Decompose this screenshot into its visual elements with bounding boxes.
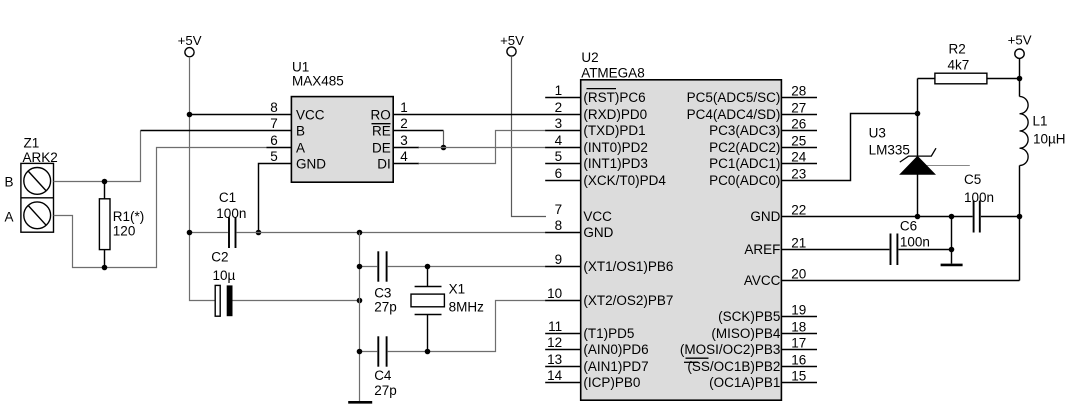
svg-text:(INT1)PD3: (INT1)PD3 [583, 156, 648, 171]
svg-text:7: 7 [270, 116, 278, 131]
svg-text:17: 17 [791, 336, 806, 351]
wire net GND of U1 (pin 5 to GND row) [259, 164, 292, 233]
svg-text:RO: RO [371, 107, 391, 122]
node junction RE/DE [441, 145, 447, 151]
node junction gnd stub on GND row [949, 214, 955, 220]
svg-text:U2: U2 [581, 50, 598, 65]
svg-text:27p: 27p [374, 300, 397, 315]
svg-text:(XCK/T0)PD4: (XCK/T0)PD4 [583, 173, 666, 188]
wire GND column [359, 233, 361, 402]
svg-text:R2: R2 [949, 41, 966, 56]
svg-text:6: 6 [555, 166, 563, 181]
pin 11 stub (U2 left) [545, 333, 581, 335]
svg-text:8: 8 [270, 100, 278, 115]
svg-text:C3: C3 [374, 285, 391, 300]
svg-text:13: 13 [547, 352, 562, 367]
wire net RO (U1 pin1 to U2 pin2 RXD) [393, 114, 581, 116]
svg-text:(MOSI/OC2)PB3: (MOSI/OC2)PB3 [680, 342, 781, 357]
svg-text:22: 22 [791, 203, 806, 218]
wire +5V middle to U2 VCC pin 7 [512, 56, 547, 216]
node junction R2 / +5V column [1017, 76, 1023, 82]
svg-text:23: 23 [791, 167, 806, 182]
svg-text:PC5(ADC5/SC): PC5(ADC5/SC) [687, 90, 781, 105]
svg-text:C1: C1 [219, 190, 236, 205]
svg-text:B: B [296, 123, 305, 138]
svg-text:U1: U1 [292, 59, 309, 74]
wire net AVCC (pin 20 via L1 column) [781, 280, 1019, 282]
svg-text:7: 7 [555, 202, 563, 217]
svg-text:4k7: 4k7 [948, 58, 970, 73]
node junction C6 / gnd stub [949, 247, 955, 253]
svg-text:PC4(ADC4/SD): PC4(ADC4/SD) [687, 107, 781, 122]
svg-text:18: 18 [791, 320, 806, 335]
pin 18 stub (U2 right) [781, 333, 817, 335]
pin 16 stub (U2 right) [781, 366, 817, 368]
node junction R1 top [102, 179, 108, 185]
svg-text:11: 11 [548, 319, 562, 334]
node junction U1 GND on GND row [256, 230, 262, 236]
svg-text:C5: C5 [964, 172, 981, 187]
svg-text:8MHz: 8MHz [449, 300, 485, 315]
wire gnd stub [951, 217, 953, 264]
svg-text:(RST)PC6: (RST)PC6 [583, 90, 645, 105]
wire net VCC (+5V to U1 pin 8) [190, 114, 292, 116]
wire net B upper to U1 pin 7 [141, 130, 292, 132]
ground (below C4 column) [348, 401, 372, 404]
svg-text:27p: 27p [374, 383, 397, 398]
svg-text:1: 1 [400, 100, 408, 115]
svg-text:C6: C6 [900, 218, 917, 233]
node junction X1 bottom / XT2 row [425, 349, 431, 355]
svg-text:2: 2 [555, 100, 563, 115]
svg-text:4: 4 [400, 149, 408, 164]
svg-text:(SCK)PB5: (SCK)PB5 [718, 309, 780, 324]
svg-text:+5V: +5V [1008, 33, 1032, 48]
wire net XT1 row (C3 to X1 top and U2 pin 9) [388, 266, 546, 268]
svg-text:LM335: LM335 [869, 143, 910, 158]
svg-text:+5V: +5V [500, 33, 524, 48]
svg-text:(AIN0)PD6: (AIN0)PD6 [583, 342, 648, 357]
svg-text:GND: GND [583, 225, 613, 240]
svg-text:120: 120 [113, 223, 136, 238]
svg-text:GND: GND [750, 209, 780, 224]
pin 26 stub (U2 right) [781, 130, 817, 132]
node junction C2 / GND column [357, 298, 363, 304]
svg-text:X1: X1 [449, 282, 466, 297]
pin 13 stub (U2 left) [545, 366, 581, 368]
svg-text:24: 24 [791, 150, 807, 165]
wire net B lower (terminal B to R1 top, up) [54, 131, 141, 182]
svg-text:AREF: AREF [744, 242, 780, 257]
svg-text:VCC: VCC [583, 209, 612, 224]
node junction R2/U3/PC0 [915, 111, 921, 117]
svg-text:(OC1A)PB1: (OC1A)PB1 [709, 375, 780, 390]
svg-text:PC2(ADC2): PC2(ADC2) [709, 140, 780, 155]
svg-text:U3: U3 [869, 126, 886, 141]
svg-text:(TXD)PD1: (TXD)PD1 [583, 123, 645, 138]
svg-text:20: 20 [791, 267, 806, 282]
wire GND row left lead of C1 [190, 232, 228, 234]
pin 12 stub (U2 left) [545, 349, 581, 351]
svg-text:DI: DI [377, 156, 391, 171]
svg-text:100n: 100n [900, 235, 930, 250]
wire net AREF (pin 21 to C6) [781, 249, 889, 251]
svg-text:10µ: 10µ [213, 268, 236, 283]
svg-text:(XT1/OS1)PB6: (XT1/OS1)PB6 [583, 259, 673, 274]
svg-text:28: 28 [791, 84, 806, 99]
svg-text:PC1(ADC1): PC1(ADC1) [709, 156, 780, 171]
inductor L1 10uH [1019, 79, 1021, 97]
node junction GND column / C3 [357, 264, 363, 270]
svg-text:8: 8 [555, 218, 563, 233]
svg-text:2: 2 [400, 116, 408, 131]
pin 17 stub (U2 right) [781, 349, 817, 351]
svg-text:AVCC: AVCC [744, 273, 781, 288]
pin 24 stub (U2 right) [781, 163, 817, 165]
svg-text:(RXD)PD0: (RXD)PD0 [583, 107, 647, 122]
wire R2 left leg down to U3 [917, 79, 919, 157]
svg-text:(ICP)PB0: (ICP)PB0 [583, 375, 640, 390]
svg-text:3: 3 [555, 116, 563, 131]
wire net A stub into U1 pin 6 [267, 147, 292, 149]
svg-text:(AIN1)PD7: (AIN1)PD7 [583, 359, 648, 374]
crystal X1 8MHz [427, 267, 429, 287]
node junction C5 / AVCC column [1017, 214, 1023, 220]
wire GND row (C1 to U2 pin 8) [237, 232, 546, 234]
svg-text:3: 3 [400, 133, 408, 148]
svg-text:L1: L1 [1033, 113, 1048, 128]
node junction X1 top / XT1 row [425, 264, 431, 270]
wire net DI (U1 pin4 to U2 pin3 TXD) [393, 163, 419, 165]
svg-text:C4: C4 [374, 368, 392, 383]
wire net XT2 row (GND col to C4) [360, 351, 378, 353]
svg-text:ATMEGA8: ATMEGA8 [581, 66, 645, 81]
svg-text:5: 5 [270, 149, 278, 164]
svg-text:C2: C2 [211, 250, 228, 265]
pin 19 stub (U2 right) [781, 316, 817, 318]
wire net GND row (pin 22) [781, 216, 972, 218]
svg-text:A: A [296, 140, 305, 155]
svg-text:21: 21 [791, 236, 806, 251]
wire +5V right stem [1019, 59, 1021, 79]
wire net RE (U1 pin2 joins DE) [393, 130, 443, 132]
node junction +5V/VCC [187, 112, 193, 118]
svg-text:12: 12 [547, 335, 562, 350]
wire net PC0 (pin 23 to U3/R2 node) [781, 114, 917, 181]
pin 15 stub (U2 right) [781, 382, 817, 384]
svg-text:25: 25 [791, 134, 806, 149]
node junction GND column / C4 [357, 349, 363, 355]
svg-text:(SS/OC1B)PB2: (SS/OC1B)PB2 [687, 359, 780, 374]
pin 5 stub (U2 left) [545, 163, 581, 165]
svg-text:VCC: VCC [296, 107, 325, 122]
svg-text:10µH: 10µH [1033, 131, 1066, 146]
resistor R1 [104, 182, 106, 199]
svg-text:6: 6 [270, 133, 278, 148]
svg-text:10: 10 [547, 286, 562, 301]
svg-text:(XT2/OS2)PB7: (XT2/OS2)PB7 [583, 293, 673, 308]
node junction R1 bottom [102, 265, 108, 271]
svg-text:19: 19 [791, 303, 806, 318]
svg-text:MAX485: MAX485 [292, 73, 344, 88]
svg-text:B: B [5, 174, 14, 189]
svg-text:(MISO)PB4: (MISO)PB4 [711, 326, 781, 341]
node junction +5V column / C1 [187, 230, 193, 236]
wire net A (terminal A via R1 bottom row) [54, 148, 268, 268]
svg-text:15: 15 [791, 369, 806, 384]
pin 28 stub (U2 right) [781, 97, 817, 99]
svg-text:DE: DE [372, 140, 391, 155]
wire net DE (U1 pin3 to U2 pin4 INT0) [393, 147, 419, 149]
pin 14 stub (U2 left) [545, 382, 581, 384]
wire +5V left vertical to C1/C2 [190, 57, 216, 301]
svg-text:27: 27 [791, 101, 806, 116]
svg-text:14: 14 [547, 368, 563, 383]
svg-text:16: 16 [791, 353, 806, 368]
wire net XT2 row (C4 to X1 bottom, jog to U2 pin 10) [388, 301, 546, 352]
svg-text:1: 1 [555, 83, 563, 98]
svg-text:R1(*): R1(*) [113, 209, 145, 224]
svg-text:GND: GND [296, 156, 326, 171]
svg-text:(T1)PD5: (T1)PD5 [583, 326, 634, 341]
pin 6 stub (U2 left) [545, 180, 581, 182]
svg-text:PC0(ADC0): PC0(ADC0) [709, 173, 780, 188]
svg-text:PC3(ADC3): PC3(ADC3) [709, 123, 780, 138]
node junction GND row / GND column [357, 230, 363, 236]
svg-text:4: 4 [555, 133, 563, 148]
svg-text:100n: 100n [216, 206, 246, 221]
svg-text:5: 5 [555, 149, 563, 164]
svg-text:A: A [5, 210, 14, 225]
pin 25 stub (U2 right) [781, 147, 817, 149]
ground (right, below C6 node) [941, 264, 963, 267]
svg-text:(INT0)PD2: (INT0)PD2 [583, 140, 648, 155]
svg-text:9: 9 [555, 252, 563, 267]
pin 27 stub (U2 right) [781, 114, 817, 116]
wire net XT1 row (GND col to C3) [360, 266, 378, 268]
pin 1 stub (U2 left) [545, 97, 581, 99]
svg-text:+5V: +5V [178, 33, 202, 48]
node junction U3 / GND row [915, 214, 921, 220]
svg-text:RE: RE [372, 123, 391, 138]
svg-text:26: 26 [791, 117, 806, 132]
svg-text:Z1: Z1 [24, 136, 40, 151]
